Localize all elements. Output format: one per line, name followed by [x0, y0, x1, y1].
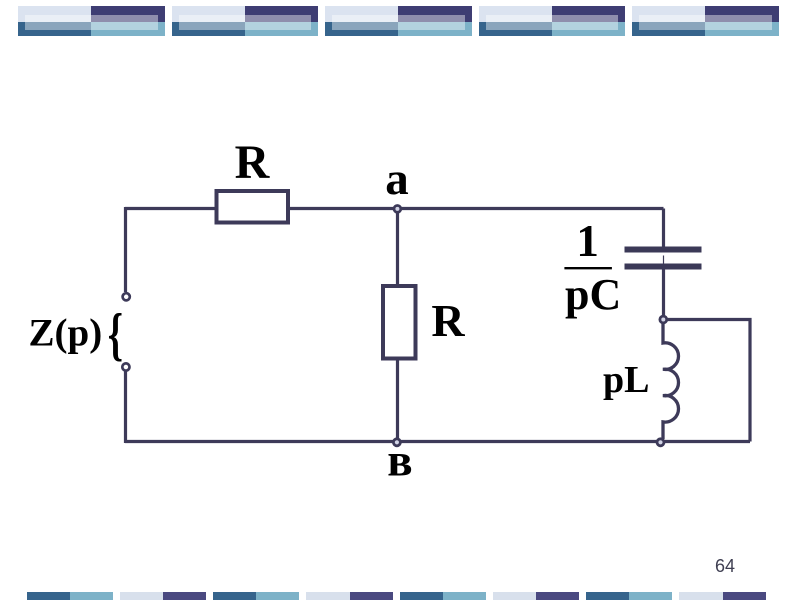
capacitor C bottom plate: [625, 264, 702, 270]
label capacitor fraction bar: [564, 267, 612, 269]
svg-text:R: R: [431, 295, 465, 346]
svg-text:1: 1: [576, 216, 599, 266]
svg-text:pC: pC: [565, 270, 621, 319]
node between capacitor and inductor: [660, 316, 667, 323]
node b junction circle: [393, 439, 400, 446]
resistor R2 (middle vertical): [383, 286, 416, 359]
svg-text:в: в: [387, 435, 412, 487]
terminal: lower input port circle: [122, 363, 129, 370]
node a junction circle: [394, 206, 401, 213]
svg-text:a: a: [385, 153, 409, 205]
wire: thin link between capacitor plates: [663, 256, 665, 265]
inductor pL: [663, 322, 679, 439]
wire: middle branch lower (resistor R2 to node b): [396, 361, 399, 443]
wire: capacitor branch drop from top wire: [662, 209, 665, 248]
wire: right parallel loop (node to right and down): [666, 320, 750, 442]
svg-text:{: {: [108, 302, 123, 367]
top decorative band: [0, 0, 800, 40]
resistor R1 (top horizontal): [217, 191, 289, 223]
svg-text:Z(p): Z(p): [29, 312, 103, 355]
wire: left vertical upper segment: [124, 207, 127, 292]
wire: top horizontal from left corner to capacitor branch: [125, 207, 664, 210]
wire: capacitor bottom plate to middle node: [662, 269, 665, 317]
wire: middle branch upper (node a to resistor R2): [396, 209, 399, 285]
node at bottom of inductor: [657, 439, 664, 446]
capacitor C top plate: [625, 247, 702, 253]
wire: bottom horizontal from left corner to right loop corner: [125, 440, 750, 443]
svg-text:R: R: [235, 136, 271, 189]
terminal: upper input port circle: [123, 293, 130, 300]
svg-text:pL: pL: [603, 359, 649, 401]
page number 64: [685, 556, 735, 577]
wire: left vertical lower segment: [124, 371, 127, 443]
